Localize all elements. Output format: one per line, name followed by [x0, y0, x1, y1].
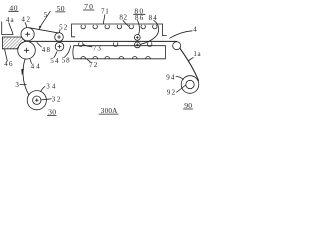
svg-text:71: 71 [101, 8, 109, 16]
leader 3 [20, 84, 26, 86]
label 42 [21, 16, 31, 24]
label 90 [184, 101, 192, 110]
leader 4 [170, 31, 193, 38]
roll 90 core [186, 80, 194, 88]
svg-text:54: 54 [50, 57, 59, 65]
oven top bar line [72, 23, 163, 25]
svg-text:92: 92 [167, 88, 176, 96]
underline 70 [83, 9, 94, 11]
svg-text:4a: 4a [6, 16, 15, 24]
underline 300A [99, 113, 118, 115]
main web line through oven [30, 40, 177, 42]
leader 46 [5, 49, 8, 61]
leader 92 [177, 85, 186, 92]
bottom nozzles row [79, 43, 152, 47]
underline 40 [9, 10, 19, 12]
svg-text:84: 84 [149, 14, 158, 22]
svg-text:44: 44 [31, 63, 42, 71]
svg-text:4: 4 [193, 26, 197, 34]
center 42 [26, 32, 30, 36]
label 71 [101, 8, 109, 16]
label 1a [193, 50, 201, 58]
underline 50 [56, 11, 66, 13]
coating chamber 46 hatched box [2, 37, 25, 49]
leader arrow 5 [39, 11, 50, 29]
leader 73 [83, 45, 92, 47]
label 86 [135, 14, 144, 22]
label 73 [93, 45, 102, 53]
nip roller 86 [134, 35, 140, 41]
top nozzles row [81, 25, 157, 29]
leader 72 [87, 59, 91, 62]
leader 44 [30, 59, 32, 63]
leader 52 [58, 30, 61, 32]
leader 32 [41, 99, 51, 100]
center 52 [57, 35, 60, 38]
leader 86 [138, 20, 140, 34]
nip roller 84 [134, 42, 140, 48]
label 300A [101, 107, 118, 115]
leader 82 [123, 20, 129, 26]
label 50 [57, 4, 65, 13]
label 5 [44, 11, 48, 19]
leader 4a [9, 23, 13, 35]
oven bottom bar body [73, 46, 166, 59]
svg-text:32: 32 [52, 96, 62, 104]
label 84 [149, 14, 158, 22]
underline 80 [134, 13, 146, 15]
leader 1a [188, 58, 193, 62]
label 46 [4, 60, 13, 68]
web 3 unwind diagonal [23, 59, 29, 95]
leader 58 [65, 46, 71, 57]
leader 94 [176, 76, 183, 79]
center 84 [136, 44, 138, 46]
leader 34 [41, 87, 45, 92]
center 54 [58, 45, 61, 48]
label 80 [134, 6, 144, 15]
svg-text:3: 3 [15, 81, 19, 89]
label 70 [84, 2, 94, 11]
svg-text:58: 58 [62, 56, 71, 64]
roll 30 outer [27, 91, 46, 110]
svg-text:34: 34 [46, 82, 57, 90]
center 30 [35, 99, 38, 102]
leader 48 [37, 43, 41, 47]
center 86 [136, 36, 138, 38]
roller 44 [18, 42, 36, 60]
svg-text:86: 86 [135, 14, 144, 22]
label 44 [31, 63, 42, 71]
svg-text:94: 94 [166, 73, 175, 81]
label 94 [166, 73, 175, 81]
svg-text:46: 46 [4, 60, 13, 68]
label 58 [62, 56, 71, 64]
oven top bar left end [72, 24, 75, 37]
center 44 [24, 48, 29, 53]
label 52 [59, 24, 68, 32]
web over roller 42 to roller 52 [29, 28, 58, 33]
svg-text:48: 48 [42, 46, 51, 54]
web 3 direction arrowhead [22, 69, 24, 75]
svg-text:1a: 1a [193, 50, 201, 58]
label 72 [89, 61, 98, 69]
svg-text:70: 70 [84, 2, 94, 11]
supply shelf L-bracket [2, 22, 13, 35]
label 40 [9, 3, 18, 12]
svg-text:82: 82 [119, 13, 127, 21]
label 4 [193, 26, 197, 34]
leader 42 [25, 23, 27, 28]
oven bottom bar top line [74, 45, 166, 47]
underline 30 [47, 115, 56, 117]
plenum bumps row [81, 56, 150, 58]
roll 90 outer [181, 76, 199, 94]
oven top bar right end [163, 24, 167, 36]
roller 54 [55, 42, 64, 51]
label 92 [167, 88, 176, 96]
roll 30 core [33, 96, 41, 104]
web to winder diagonal [180, 48, 199, 80]
label 54 [50, 57, 59, 65]
label 48 [42, 46, 51, 54]
label 32 [52, 96, 62, 104]
roller 52 [55, 33, 64, 42]
leader 71 [103, 15, 105, 24]
label 4a [6, 16, 15, 24]
roller 42 [21, 28, 34, 41]
leader 84 [141, 20, 159, 44]
label 3 [15, 81, 19, 89]
guide roller 4 [173, 42, 181, 50]
underline 90 [183, 108, 192, 110]
label 30 [48, 108, 56, 117]
svg-text:42: 42 [21, 16, 31, 24]
label 82 [119, 13, 127, 21]
leader 54 [54, 52, 57, 58]
label 34 [46, 82, 57, 90]
svg-text:52: 52 [59, 24, 68, 32]
